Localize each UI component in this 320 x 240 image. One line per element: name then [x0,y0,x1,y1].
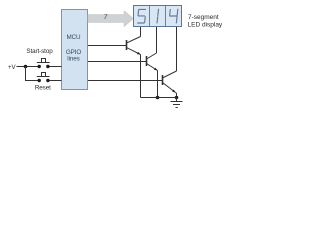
switch S2 actuator [37,73,50,77]
wire display digit1 to Q1 collector [140,27,142,37]
svg-text:Reset: Reset [35,85,51,92]
switch S1 actuator [37,59,50,63]
wire GPIO to Q2 base [88,61,146,63]
svg-text:Start-stop: Start-stop [26,48,53,55]
svg-text:7: 7 [104,14,108,21]
junction +V branch [24,65,28,69]
svg-text:LED display: LED display [188,21,223,28]
digit 1 [157,9,159,24]
wire +V to Reset row [26,67,40,81]
junction Q2 emitter / rail [156,96,160,100]
wire display digit3 to Q3 collector [176,27,178,71]
7-segment LED display DS1 [134,6,182,27]
wire Q3 emitter to ground node [176,93,177,98]
digit 4 [169,9,178,24]
ground [171,98,183,108]
svg-text:7-segment: 7-segment [188,14,219,21]
svg-text:MCU: MCU [66,34,81,41]
wire +V row [17,66,62,68]
svg-text:+V: +V [8,64,17,71]
bus arrow (7 segment lines) [88,10,134,26]
wire Reset row to MCU [48,80,62,82]
digit 5 [137,9,146,23]
wire display digit2 to Q2 collector [156,27,158,53]
svg-text:lines: lines [67,56,79,63]
wire GPIO to Q1 base [88,45,126,47]
wire Q2 emitter to rail [157,71,159,98]
wire GPIO to Q3 base [88,80,162,82]
junction ground node [175,96,179,100]
transistor Q3 [163,71,177,93]
switch S2 Reset contacts [38,79,41,82]
transistor Q1 [127,37,141,55]
switch S1 Start-stop contacts [38,65,41,68]
transistor Q2 [147,53,158,71]
MCU U1 [62,10,88,90]
wire Q1 emitter to rail [140,55,142,98]
wire emitter ground rail [141,97,177,99]
